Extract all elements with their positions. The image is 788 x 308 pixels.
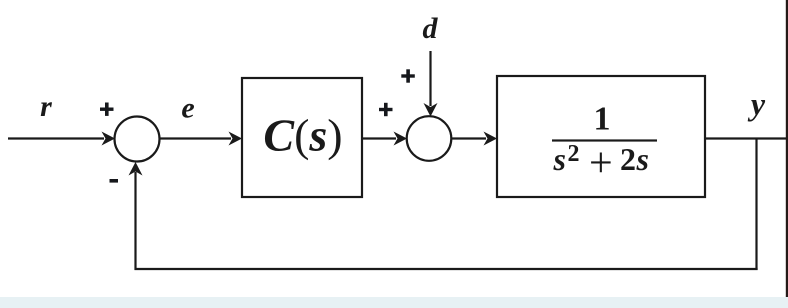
wire: S2 to plant block with arrowhead xyxy=(451,132,497,146)
plus sign at S1 (r input) xyxy=(100,103,114,116)
window edge line (right border) xyxy=(786,0,788,308)
wire: feedback drop (right vertical) xyxy=(755,139,757,271)
wire: C(s) output to S2 with arrowhead xyxy=(362,132,407,146)
minus sign at S1 (feedback input) xyxy=(110,179,119,183)
svg-text:C(s): C(s) xyxy=(263,110,342,161)
svg-text:d: d xyxy=(423,12,439,45)
wire: feedback rise into S1 with arrowhead (upward) xyxy=(129,162,143,270)
block plant 1/(s^2+2s) xyxy=(497,76,705,197)
footer bar xyxy=(0,297,788,308)
svg-text:e: e xyxy=(181,92,194,125)
svg-text:1: 1 xyxy=(594,101,611,138)
fraction bar xyxy=(552,139,657,141)
summing junction S2 xyxy=(407,116,452,161)
plus sign at S2 (C(s) input) xyxy=(379,103,393,116)
wire: input r with arrowhead into summing junction S1 xyxy=(8,132,115,146)
block C(s) controller xyxy=(242,78,362,197)
plus sign at S2 (d input) xyxy=(401,69,415,82)
wire: output y xyxy=(705,137,788,139)
summing junction S1 xyxy=(115,117,160,162)
wire: e from S1 to C(s) with arrowhead xyxy=(160,132,243,146)
wire: feedback bottom run xyxy=(135,268,758,270)
svg-text:y: y xyxy=(747,86,766,122)
wire: d input into S2 with arrowhead (downward) xyxy=(424,51,438,117)
svg-text:r: r xyxy=(40,90,52,123)
